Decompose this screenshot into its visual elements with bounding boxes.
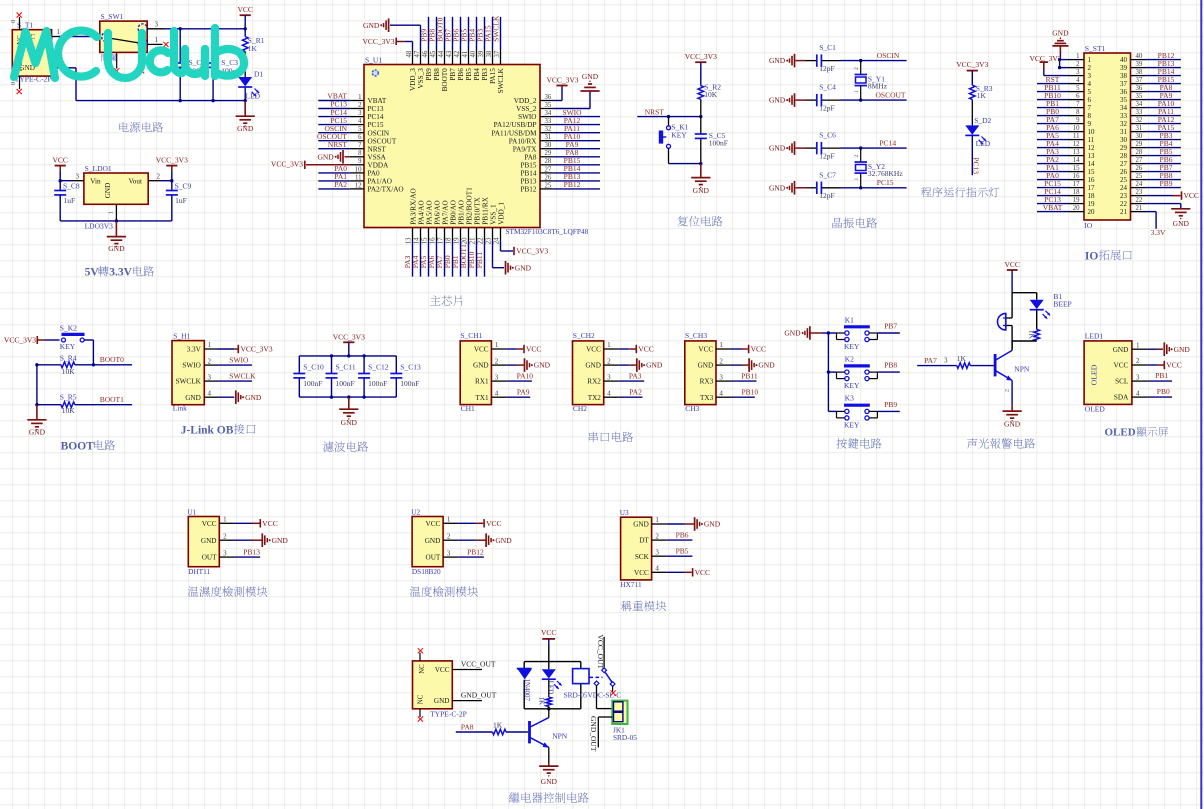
net label PA3 xyxy=(629,371,642,380)
mcu pin 1 VBAT xyxy=(318,92,387,105)
svg-text:31: 31 xyxy=(1136,125,1143,132)
svg-text:GND: GND xyxy=(341,418,358,427)
svg-text:12pF: 12pF xyxy=(819,64,834,73)
ground GND reset xyxy=(691,164,710,195)
capacitor S_C5 100nF xyxy=(695,117,728,164)
svg-text:1: 1 xyxy=(719,341,723,349)
header pin 31 xyxy=(1120,123,1181,136)
svg-text:PA10/RX: PA10/RX xyxy=(509,137,538,145)
ldo bottom rail xyxy=(60,220,172,222)
svg-text:18: 18 xyxy=(445,237,452,244)
U1 pin 3 OUT xyxy=(202,549,235,561)
S_H1 pin 1 3.3V xyxy=(187,341,218,353)
wire key PB9 xyxy=(828,410,899,412)
resistor S_R1 1K xyxy=(242,29,264,77)
switch S_SW1 contacts xyxy=(102,24,148,48)
connector S_T1 TYPE-C-2P body xyxy=(12,21,51,84)
svg-text:OLED: OLED xyxy=(1090,364,1099,385)
svg-text:GND: GND xyxy=(495,536,512,545)
title 按键电路 xyxy=(836,438,881,448)
mcu pin 15 PA5/AO xyxy=(419,200,434,276)
header pin 26 xyxy=(1120,163,1181,176)
vcc flag CH3 xyxy=(731,345,766,354)
svg-text:3: 3 xyxy=(655,548,659,556)
transistor NPN Q2 xyxy=(530,718,568,748)
svg-text:100nF: 100nF xyxy=(368,379,387,388)
LED relay xyxy=(542,669,562,694)
svg-text:S_C11: S_C11 xyxy=(336,363,356,372)
mcu pin 11 PA1/AO xyxy=(318,172,392,185)
svg-text:TX2: TX2 xyxy=(588,394,602,402)
mcu pin 28 PB15 xyxy=(521,156,600,169)
net label PB11 xyxy=(741,371,758,380)
svg-text:3: 3 xyxy=(719,373,723,381)
LED1 pin 4 SDA xyxy=(1114,389,1147,401)
svg-text:3: 3 xyxy=(76,173,80,181)
wire PC15 xyxy=(841,187,907,189)
U3 pin 2 DT xyxy=(639,532,667,544)
U3 pin 4 VCC xyxy=(634,565,667,577)
net label BOOT1 xyxy=(100,395,124,404)
svg-text:GND: GND xyxy=(473,362,489,370)
svg-text:100nF: 100nF xyxy=(336,379,355,388)
svg-text:10: 10 xyxy=(1073,125,1080,132)
svg-text:20: 20 xyxy=(461,237,468,244)
LED1 pin 1 GND xyxy=(1113,341,1147,353)
vcc_3v3 flag VDD_2 xyxy=(546,75,578,100)
resistor S_R2 10K xyxy=(698,83,721,117)
svg-text:VCC_3V3: VCC_3V3 xyxy=(546,75,578,84)
header pin 10 xyxy=(1037,123,1095,136)
net label PA2 xyxy=(629,387,642,396)
mcu pin 45 PB8 xyxy=(428,17,441,81)
svg-text:4: 4 xyxy=(1136,389,1140,397)
header pin 40 xyxy=(1120,51,1181,64)
header pin 18 xyxy=(1037,187,1095,200)
vcc_3v3 flag VDD_3 xyxy=(363,37,413,50)
svg-text:PA9: PA9 xyxy=(517,387,530,396)
net label PA7 xyxy=(924,356,948,365)
svg-text:39: 39 xyxy=(1120,64,1128,72)
svg-text:1K: 1K xyxy=(538,697,546,706)
mcu pin 8 VSSA xyxy=(350,150,387,161)
svg-text:9: 9 xyxy=(1088,120,1092,128)
svg-text:12: 12 xyxy=(1073,141,1080,148)
svg-text:4: 4 xyxy=(495,389,499,397)
net label SRD-05VDC-SL-C xyxy=(564,690,622,699)
svg-text:19: 19 xyxy=(1088,200,1096,208)
typec stub bottom xyxy=(419,709,421,717)
alarm top rail xyxy=(1012,292,1037,294)
LDO pin 2 wire xyxy=(148,173,172,181)
key K2 xyxy=(837,354,878,390)
mcu pin 23 VSS_1 xyxy=(485,204,497,244)
svg-text:PB9: PB9 xyxy=(884,400,897,409)
relay contact xyxy=(594,668,615,687)
mcu pin 9 VDDA xyxy=(350,158,389,169)
svg-text:17: 17 xyxy=(1073,181,1080,188)
filter bottom rail xyxy=(299,396,396,398)
wire OSCOUT xyxy=(841,99,907,101)
svg-text:VSS_2: VSS_2 xyxy=(516,105,537,113)
key K1 xyxy=(837,315,878,351)
svg-text:S_H1: S_H1 xyxy=(173,331,190,340)
svg-text:7: 7 xyxy=(1088,104,1092,112)
svg-text:23: 23 xyxy=(1136,189,1143,196)
svg-text:2: 2 xyxy=(1005,389,1011,392)
mcu pin 18 PB0/AO xyxy=(443,200,458,277)
net label PB12 xyxy=(467,548,484,557)
svg-text:SDA: SDA xyxy=(1114,394,1129,402)
wire emitter xyxy=(1005,380,1013,405)
svg-text:3: 3 xyxy=(447,549,451,557)
header pin 1 xyxy=(1060,53,1091,64)
svg-text:10: 10 xyxy=(1088,128,1096,136)
svg-text:PA2: PA2 xyxy=(629,387,642,396)
svg-text:S_C4: S_C4 xyxy=(819,83,836,92)
svg-text:S_CH2: S_CH2 xyxy=(573,331,595,340)
svg-text:12pF: 12pF xyxy=(819,191,834,200)
svg-text:3: 3 xyxy=(607,373,611,381)
svg-text:10K: 10K xyxy=(704,90,718,99)
mcu pin 19 PB1/AO xyxy=(451,200,466,277)
mcu pin 7 NRST xyxy=(318,140,386,153)
net label PC13 vertical xyxy=(972,157,981,174)
mcu pin 35 VSS_2 xyxy=(516,102,553,113)
svg-text:1: 1 xyxy=(655,516,659,524)
svg-text:S_C13: S_C13 xyxy=(400,363,421,372)
junction xyxy=(362,354,365,357)
svg-text:3: 3 xyxy=(944,357,948,365)
mcu pin 43 PB7 xyxy=(444,17,457,81)
svg-text:SWIO: SWIO xyxy=(182,362,200,370)
svg-text:VDD_1: VDD_1 xyxy=(497,202,505,225)
resistor 1K alarm xyxy=(1027,329,1039,341)
title 称重模块 xyxy=(621,601,666,612)
S_CH1 pin 2 GND xyxy=(473,357,506,369)
pin1 marker xyxy=(372,70,378,76)
mcu S_U1 STM32F103C8T6 body xyxy=(364,55,589,236)
capacitor S_C6 12pF xyxy=(805,131,840,161)
svg-text:31: 31 xyxy=(1120,128,1128,136)
svg-text:15: 15 xyxy=(1088,168,1096,176)
svg-text:VCC: VCC xyxy=(474,346,489,354)
title 复位电路 xyxy=(678,216,723,227)
svg-text:2: 2 xyxy=(157,173,161,181)
header pin 30 xyxy=(1120,131,1181,144)
net VCC_OUT vertical xyxy=(596,635,605,670)
mcu pin 26 PB13 xyxy=(521,172,600,185)
header pin 36 xyxy=(1120,83,1181,96)
S_CH3 pin 2 GND xyxy=(698,357,731,369)
svg-text:PB13: PB13 xyxy=(243,548,260,557)
wire PB6 xyxy=(667,539,693,541)
S_CH3 pin 4 TX3 xyxy=(700,389,731,401)
resistor 1K relay xyxy=(538,680,552,709)
svg-text:S_C7: S_C7 xyxy=(819,170,836,179)
resistor 1K base xyxy=(957,354,971,368)
svg-text:15: 15 xyxy=(1073,165,1080,172)
svg-text:PA5/AO: PA5/AO xyxy=(425,200,433,225)
mcu pin 47 VSS_3 xyxy=(414,50,425,89)
svg-text:VCC: VCC xyxy=(638,345,653,354)
junction xyxy=(170,179,173,182)
svg-text:1: 1 xyxy=(57,28,61,36)
svg-text:VCC: VCC xyxy=(541,628,556,637)
S_CH1 pin 4 TX1 xyxy=(475,389,506,401)
wire PA2 xyxy=(619,396,643,398)
mcu pin 5 OSCIN xyxy=(318,124,390,137)
wire PB12 xyxy=(458,556,484,558)
svg-text:S_C10: S_C10 xyxy=(303,363,324,372)
svg-text:OSCOUT: OSCOUT xyxy=(876,91,906,100)
ground GND power circuit xyxy=(236,101,255,133)
svg-text:PA8: PA8 xyxy=(461,722,474,731)
mcu pin 30 PA9/TX xyxy=(513,140,600,153)
title OLED显示屏 xyxy=(1105,427,1169,439)
net label PB6 xyxy=(676,531,689,540)
svg-text:GND: GND xyxy=(108,244,125,253)
svg-text:16: 16 xyxy=(1073,173,1080,180)
svg-text:SCK: SCK xyxy=(635,553,650,561)
svg-text:RX1: RX1 xyxy=(475,378,489,386)
junction xyxy=(35,403,38,406)
net label BOOT0 xyxy=(100,355,124,364)
no-ERC mark xyxy=(114,68,119,73)
svg-text:Vout: Vout xyxy=(129,178,142,186)
header pin 23 xyxy=(1120,189,1146,200)
connector S_H1 body xyxy=(172,331,204,412)
svg-text:32: 32 xyxy=(1120,120,1128,128)
gnd flag VSS_2 xyxy=(553,72,599,109)
gnd flag S_C1 xyxy=(769,54,805,68)
svg-text:GND: GND xyxy=(541,777,558,786)
S_H1 pin 4 GND xyxy=(185,389,218,401)
svg-text:IO: IO xyxy=(1085,250,1098,262)
svg-text:PC14: PC14 xyxy=(368,113,384,121)
junction xyxy=(1058,66,1061,69)
svg-text:U1: U1 xyxy=(187,508,196,517)
net label SWIO xyxy=(229,356,249,365)
svg-text:GND: GND xyxy=(29,428,46,437)
net label PA10 xyxy=(517,371,534,380)
mcu pin 39 PB3 xyxy=(476,17,489,81)
svg-text:PB2/BOOT1: PB2/BOOT1 xyxy=(465,187,473,225)
svg-text:3.3V: 3.3V xyxy=(1151,228,1166,237)
S_CH2 pin 1 VCC xyxy=(586,341,619,353)
svg-text:2: 2 xyxy=(1136,357,1140,365)
relay loop xyxy=(524,662,581,709)
svg-text:24: 24 xyxy=(1120,184,1128,192)
svg-text:VCC_3V3: VCC_3V3 xyxy=(271,159,303,168)
svg-text:26: 26 xyxy=(1120,168,1128,176)
svg-text:BOOT: BOOT xyxy=(61,441,95,453)
svg-text:3.3V: 3.3V xyxy=(109,267,132,279)
S_CH1 pin 3 RX1 xyxy=(475,373,506,385)
svg-text:8: 8 xyxy=(1088,112,1092,120)
mcu pin 36 VDD_2 xyxy=(514,94,554,105)
svg-text:GND: GND xyxy=(363,21,380,30)
vcc flag U2 xyxy=(458,519,501,528)
title J-Link OB接口 xyxy=(181,424,256,437)
svg-text:LED1: LED1 xyxy=(1085,332,1104,341)
U3 pin 1 GND xyxy=(633,516,667,528)
module U2 DS18B20 body xyxy=(411,508,443,577)
svg-text:LDO3V3: LDO3V3 xyxy=(85,221,114,230)
svg-text:NC: NC xyxy=(417,694,424,704)
header pin 13 xyxy=(1037,147,1095,160)
net label PB7 xyxy=(884,322,897,331)
svg-text:13: 13 xyxy=(405,237,412,244)
header pin 14 xyxy=(1037,155,1095,168)
svg-text:GND_OUT: GND_OUT xyxy=(589,716,598,752)
switch label 开关 xyxy=(101,54,116,61)
S_T1 pin 2 wire to gnd rail xyxy=(52,59,76,100)
header pin 5 xyxy=(1037,83,1092,96)
svg-text:STM32F103C8T6_LQFP48: STM32F103C8T6_LQFP48 xyxy=(506,227,589,236)
title 串口电路 xyxy=(589,432,633,442)
mcu pin 33 PA12/USB/DP xyxy=(494,116,600,129)
svg-text:27: 27 xyxy=(1120,160,1128,168)
svg-text:23: 23 xyxy=(485,237,492,244)
svg-text:21: 21 xyxy=(1120,208,1128,216)
svg-text:VDD_3: VDD_3 xyxy=(409,68,417,91)
power flag VCC alarm xyxy=(1004,260,1019,293)
wire PB13 xyxy=(235,556,261,558)
power flag VCC_3V3 boot xyxy=(4,336,60,345)
S_SW1 pin 1 stub xyxy=(147,36,162,45)
vcc flag U3 xyxy=(667,568,710,577)
svg-text:NRST: NRST xyxy=(645,107,665,116)
net label NRST xyxy=(645,107,665,116)
svg-text:Link: Link xyxy=(173,403,187,412)
mcu pin 2 PC13 xyxy=(318,100,384,113)
header pin 9 xyxy=(1037,115,1092,128)
S_T1 shield stub bottom xyxy=(10,76,20,89)
svg-text:GND: GND xyxy=(769,183,786,192)
svg-text:KEY: KEY xyxy=(671,130,687,139)
header pin 28 xyxy=(1120,147,1181,160)
svg-text:17: 17 xyxy=(437,237,444,244)
junction xyxy=(347,395,350,398)
header pin 21 xyxy=(1120,205,1146,216)
title 5V转3.3V电路 xyxy=(85,266,155,279)
gnd flag oled xyxy=(1147,342,1190,356)
U2 pin 1 VCC xyxy=(426,516,459,528)
svg-text:PA8: PA8 xyxy=(524,153,537,161)
header pin 39 xyxy=(1120,59,1181,72)
S_H1 pin 3 SWCLK xyxy=(176,373,218,385)
gnd flag VSS_1 xyxy=(493,241,532,275)
svg-text:PA3: PA3 xyxy=(629,371,642,380)
svg-text:KEY: KEY xyxy=(844,381,860,390)
ground GND filter xyxy=(339,397,358,427)
capacitor S_C7 12pF xyxy=(805,170,840,200)
header pin 32 xyxy=(1120,115,1181,128)
svg-text:2: 2 xyxy=(447,532,451,540)
svg-text:3: 3 xyxy=(208,373,212,381)
svg-text:NPN: NPN xyxy=(1014,364,1030,373)
svg-text:1N4007: 1N4007 xyxy=(523,679,531,702)
junction xyxy=(330,354,333,357)
no-ERC mark xyxy=(611,690,616,695)
mcu pin 13 PA3/RX/AO xyxy=(403,188,418,276)
svg-text:VCC: VCC xyxy=(237,5,252,14)
svg-text:VCC_3V3: VCC_3V3 xyxy=(363,37,395,46)
svg-text:14: 14 xyxy=(413,237,420,244)
LED B1 BEEP xyxy=(1030,292,1072,329)
svg-text:14: 14 xyxy=(1073,157,1080,164)
mcu pin 22 PB11/RX xyxy=(475,196,490,276)
svg-text:35: 35 xyxy=(1120,96,1128,104)
svg-text:VCC: VCC xyxy=(52,155,67,164)
svg-text:VCC: VCC xyxy=(486,519,501,528)
S_CH2 pin 3 RX2 xyxy=(587,373,618,385)
svg-text:GND: GND xyxy=(769,56,786,65)
svg-text:VSS_1: VSS_1 xyxy=(489,204,497,225)
svg-text:GND: GND xyxy=(698,362,714,370)
svg-text:PA11/USB/DM: PA11/USB/DM xyxy=(491,129,537,137)
title BOOT电路 xyxy=(61,440,116,453)
svg-text:BEEP: BEEP xyxy=(1053,300,1071,309)
junction xyxy=(547,707,550,710)
gnd flag S_C7 xyxy=(769,181,805,195)
svg-text:GND: GND xyxy=(1113,346,1129,354)
svg-text:PB5: PB5 xyxy=(465,68,473,81)
capacitor S_C10 100nF xyxy=(293,356,324,397)
vcc_3v3 flag ST1 xyxy=(1030,54,1062,76)
svg-text:30: 30 xyxy=(1136,133,1143,140)
wire base2 xyxy=(970,365,994,367)
svg-text:1: 1 xyxy=(1136,341,1140,349)
wire base relay xyxy=(506,731,528,733)
net label PC14 xyxy=(879,139,896,148)
svg-text:VCC: VCC xyxy=(435,666,450,674)
no-ERC mark xyxy=(418,716,423,721)
svg-text:PA2: PA2 xyxy=(334,180,347,189)
S_CH3 pin 3 RX3 xyxy=(700,373,731,385)
mcu pin 16 PA6/AO xyxy=(427,200,442,276)
svg-text:PB12: PB12 xyxy=(564,180,581,189)
junction xyxy=(859,186,862,189)
svg-text:23: 23 xyxy=(1120,192,1128,200)
header pin 3 xyxy=(1044,69,1092,80)
wire OSCIN xyxy=(841,60,907,62)
svg-text:12pF: 12pF xyxy=(819,152,834,161)
svg-text:19: 19 xyxy=(453,237,460,244)
svg-text:VDDA: VDDA xyxy=(368,161,390,169)
svg-text:S_LDO1: S_LDO1 xyxy=(85,164,112,173)
wire key PB7 xyxy=(828,332,899,334)
junction xyxy=(699,162,702,165)
wire PC14 xyxy=(841,147,907,149)
gnd rail wire xyxy=(76,100,245,102)
svg-text:40: 40 xyxy=(1120,56,1128,64)
svg-text:K3: K3 xyxy=(845,394,854,403)
svg-text:1K: 1K xyxy=(977,91,987,100)
svg-text:PB3: PB3 xyxy=(481,68,489,81)
wire SWCLK xyxy=(218,380,252,382)
svg-text:1K: 1K xyxy=(248,44,258,53)
vcc flag U1 xyxy=(235,519,278,528)
gnd flag CH2 xyxy=(619,358,663,372)
ground GND ldo xyxy=(107,221,126,253)
title 温度检测模块 xyxy=(410,586,478,597)
svg-text:21: 21 xyxy=(469,238,476,245)
connector S_CH1 body xyxy=(460,331,491,413)
svg-text:12pF: 12pF xyxy=(819,104,834,113)
mcu pin 37 SWCLK xyxy=(492,15,505,93)
